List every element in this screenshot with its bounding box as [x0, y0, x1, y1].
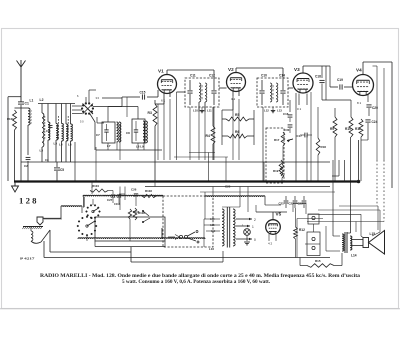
svg-text:6 1: 6 1	[161, 99, 166, 103]
svg-text:C12: C12	[209, 74, 215, 78]
svg-text:L13: L13	[277, 109, 282, 113]
svg-text:R18: R18	[321, 145, 327, 149]
svg-text:V3: V3	[294, 67, 300, 72]
svg-text:C14: C14	[279, 74, 285, 78]
svg-text:C19: C19	[337, 78, 343, 82]
svg-text:R104: R104	[92, 184, 99, 188]
svg-text:C18: C18	[315, 75, 321, 79]
svg-text:C11: C11	[190, 74, 196, 78]
svg-text:R17: R17	[274, 138, 280, 142]
svg-text:R10: R10	[345, 127, 351, 131]
svg-text:5 watt. Consumo a 160 V, 0,6 A: 5 watt. Consumo a 160 V, 0,6 A. Potenza …	[122, 279, 271, 285]
svg-text:5 0: 5 0	[80, 120, 84, 124]
svg-text:C3: C3	[45, 158, 49, 162]
svg-text:R103: R103	[145, 189, 152, 193]
svg-text:1 2 8: 1 2 8	[19, 195, 37, 205]
svg-text:C27: C27	[107, 198, 113, 202]
svg-text:L4: L4	[59, 143, 63, 147]
svg-text:V2: V2	[228, 67, 234, 72]
svg-text:C26: C26	[131, 188, 137, 192]
svg-text:L8 L9: L8 L9	[136, 145, 144, 149]
svg-text:R9: R9	[330, 127, 334, 131]
svg-text:2: 2	[254, 218, 256, 222]
svg-text:L7: L7	[107, 144, 111, 148]
svg-text:L3: L3	[40, 149, 44, 153]
svg-text:L10: L10	[193, 109, 198, 113]
svg-text:C16: C16	[283, 112, 289, 116]
svg-text:L14: L14	[351, 254, 357, 258]
svg-text:0: 0	[254, 238, 256, 242]
svg-text:R3: R3	[148, 111, 152, 115]
svg-text:L1: L1	[30, 99, 34, 103]
svg-text:R4: R4	[206, 134, 210, 138]
svg-text:C4: C4	[46, 129, 50, 133]
svg-text:L16: L16	[209, 247, 214, 251]
svg-text:P 4217: P 4217	[20, 257, 35, 261]
svg-text:1: 1	[252, 225, 254, 229]
svg-text:V4: V4	[356, 68, 362, 73]
svg-text:L6: L6	[68, 143, 72, 147]
svg-text:L15: L15	[370, 232, 376, 236]
svg-text:4 2: 4 2	[268, 242, 273, 246]
svg-text:3 0: 3 0	[96, 96, 100, 100]
svg-text:8 1: 8 1	[357, 101, 362, 105]
svg-text:L2: L2	[40, 98, 44, 102]
svg-text:R11: R11	[355, 127, 361, 131]
svg-text:R105: R105	[133, 210, 140, 214]
svg-text:R101: R101	[7, 117, 14, 121]
svg-text:0 1: 0 1	[297, 107, 302, 111]
svg-text:C2: C2	[24, 164, 28, 168]
svg-text:L11: L11	[207, 109, 212, 113]
svg-text:C15: C15	[140, 91, 146, 95]
svg-text:R19: R19	[273, 169, 279, 173]
svg-text:C25: C25	[225, 185, 231, 189]
svg-text:C24: C24	[372, 120, 378, 124]
svg-text:C8: C8	[126, 131, 130, 135]
svg-text:C7: C7	[96, 133, 100, 137]
svg-text:L12: L12	[264, 109, 269, 113]
svg-text:L5: L5	[54, 142, 58, 146]
svg-text:V1: V1	[158, 69, 164, 74]
svg-text:C1: C1	[25, 102, 29, 106]
svg-text:C10: C10	[261, 74, 267, 78]
svg-text:R12: R12	[299, 228, 305, 232]
svg-text:R15: R15	[315, 259, 321, 263]
svg-text:C17: C17	[297, 134, 303, 138]
svg-text:C30: C30	[284, 128, 290, 132]
svg-text:C5: C5	[60, 168, 64, 172]
